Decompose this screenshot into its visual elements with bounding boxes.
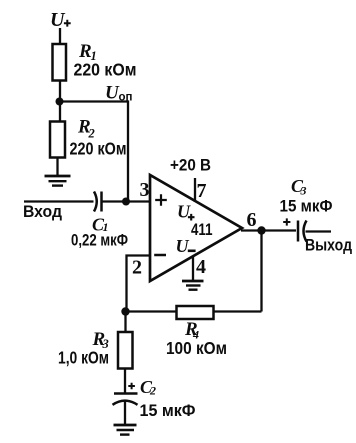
svg-text:0,22 мкФ: 0,22 мкФ [71,231,128,250]
wire R2 to ground [56,158,58,176]
svg-text:Вход: Вход [23,202,62,221]
wire R1 to node Uop [59,81,61,122]
node feedback junction dot [121,307,129,315]
svg-text:15 мкФ: 15 мкФ [140,401,196,420]
svg-text:1,0 кОм: 1,0 кОм [58,348,109,368]
svg-text:+20 В: +20 В [170,156,211,175]
wire Uop down to input node [127,100,129,201]
node Uop junction dot [56,98,64,106]
wire R3 to C2 [124,369,126,394]
wire R3 top [124,312,126,333]
wire junction to R4 [126,310,177,312]
pin 4 wire [192,256,194,281]
node Uop label [105,83,133,104]
svg-text:3: 3 [140,179,150,201]
wire C2 to ground [124,401,126,425]
op-amp U1 triangle 411 [150,175,242,281]
resistor R3 [118,332,133,369]
svg-text:4: 4 [196,256,206,278]
resistor R4 [177,306,214,319]
resistor R1 [53,44,67,81]
wire op-amp output [241,229,296,231]
svg-text:Выход: Выход [305,236,352,255]
svg-text:2: 2 [132,257,142,279]
svg-text:220 кОм: 220 кОм [70,139,127,159]
resistor R2 [50,122,65,158]
wire Uop horizontal [60,100,129,102]
ground below C2 [114,424,137,427]
wire U+ to R1 [59,28,61,44]
pin 7 wire [194,178,196,202]
svg-text:2: 2 [149,384,156,398]
svg-text:U: U [50,9,66,31]
wire C1 to op-amp pin3 [102,200,151,202]
svg-text:15 мкФ: 15 мкФ [280,197,333,216]
svg-text:411: 411 [191,220,213,239]
node output junction dot [257,226,265,234]
svg-text:7: 7 [197,180,207,202]
node U+ supply label [50,9,71,31]
svg-text:3: 3 [300,184,307,198]
svg-text:U: U [176,236,190,256]
pin 2 wire [127,256,151,312]
wire R4 to output node [214,310,262,312]
wire C3 to output [306,230,332,232]
node input junction dot [122,198,130,206]
wire input [24,200,94,202]
ground below R2 [45,175,71,178]
capacitor C3 [280,176,333,226]
wire feedback vertical [260,231,262,312]
capacitor C1 [94,192,97,212]
svg-text:220 кОм: 220 кОм [74,60,137,80]
ground at pin 4 [182,280,204,283]
svg-text:6: 6 [247,209,257,231]
capacitor C2 [128,377,195,420]
svg-text:U: U [177,202,191,222]
svg-text:100 кОм: 100 кОм [166,338,227,358]
